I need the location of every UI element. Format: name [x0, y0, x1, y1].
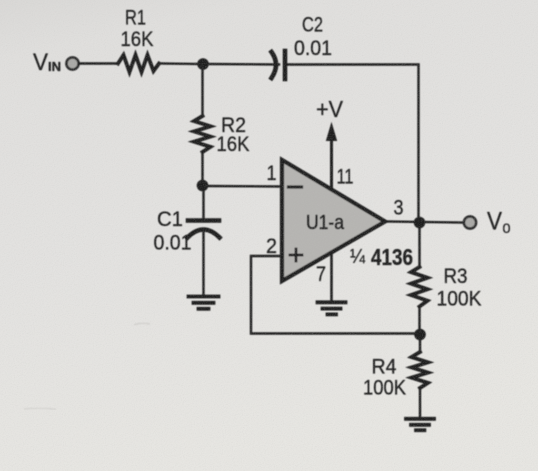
- pin 7 line to ground: [330, 252, 333, 301]
- wire: R4 to ground: [419, 388, 421, 417]
- faint smudge mid-left: [134, 323, 150, 325]
- node D junction: [414, 329, 426, 341]
- wire: op-amp output pin 3 to VO: [385, 222, 463, 223]
- +V arrowhead: [327, 124, 337, 141]
- op-amp U1-a triangle: [282, 160, 385, 281]
- wire: output node down to R3: [418, 223, 420, 268]
- ground (below C1): [189, 297, 219, 309]
- pin 11 / +V supply line: [330, 138, 333, 190]
- op-amp plus input symbol: [290, 249, 302, 261]
- wire: C1 to ground: [202, 233, 204, 295]
- resistor R4: [412, 352, 429, 388]
- wire: VIN terminal to R1: [80, 62, 119, 64]
- node C junction (output): [414, 217, 426, 229]
- wire: node B down to C1: [202, 186, 204, 220]
- ground (pin 7): [318, 302, 346, 314]
- wire: R2 to node B: [201, 152, 203, 186]
- resistor R2: [194, 116, 211, 152]
- wire: node A down to R2: [201, 64, 203, 116]
- capacitor C1: [188, 218, 219, 223]
- wire: R1 to node A: [159, 62, 203, 65]
- resistor R3: [411, 267, 428, 307]
- wire: node A to C2: [203, 63, 279, 66]
- wire: node D down to R4: [419, 335, 421, 353]
- ground (below R4): [406, 419, 434, 430]
- wire: op-amp pin 2 feedback loop: [251, 256, 420, 334]
- wire: node B to op-amp pin 1: [203, 185, 283, 188]
- wire: C2 to top-right corner and down to output node: [288, 65, 420, 223]
- faint smudge left-bottom: [24, 408, 56, 410]
- op-amp minus input symbol: [289, 185, 302, 188]
- capacitor C2: [272, 52, 277, 78]
- wire: R3 to node D: [418, 307, 420, 335]
- node A junction: [197, 58, 209, 70]
- node VIN terminal: [66, 57, 78, 69]
- node B junction: [197, 180, 209, 192]
- node VO terminal: [464, 216, 476, 228]
- resistor R1: [118, 55, 159, 72]
